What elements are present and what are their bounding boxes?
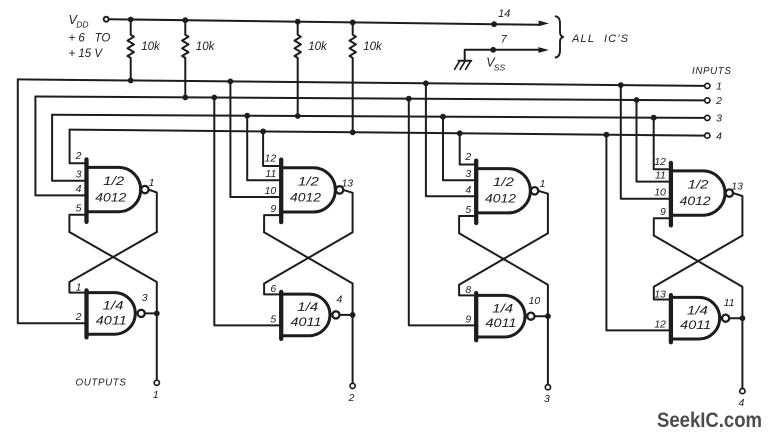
cross-coupling wire U4a 1/2 4012 output to U4b 1/4 4011 input [654,236,743,300]
svg-text:TO: TO [95,33,111,45]
svg-text:12: 12 [654,318,666,330]
wire row 3 down to U4a 1/2 4012 pin 12 [654,118,671,170]
wire row 2 down to U4a 1/2 4012 pin 11 [637,100,671,182]
svg-text:1/4: 1/4 [687,303,708,317]
svg-text:8: 8 [465,284,471,296]
wire row4 corner down to U1a 1/2 4012 pin 2 [70,130,87,164]
output terminal 4 [740,389,745,394]
cross-coupling wire U1a 1/2 4012 output to U1b 1/4 4011 input [69,232,156,293]
svg-text:4012: 4012 [680,194,711,208]
junction dot rail top of resistor x=131 [128,17,134,23]
wire output node 1 down to terminal [156,313,158,380]
svg-text:10k: 10k [141,41,161,53]
input terminal 3 [705,115,710,120]
svg-text:4: 4 [716,130,722,142]
svg-text:1/4: 1/4 [103,299,124,313]
wire row 3 corner down to U1a 1/2 4012 pin 3 [52,115,86,181]
svg-text:1/2: 1/2 [688,178,709,192]
junction dot rail top of resistor x=298 [295,19,301,25]
svg-text:INPUTS: INPUTS [692,66,732,77]
svg-text:SS: SS [494,63,506,73]
svg-text:9: 9 [465,313,471,325]
junction dot output node 1 [154,311,160,317]
cross-coupling wire U2b 1/4 4011 output to U2a 1/2 4012 input [264,232,353,315]
wire input row 4 down to U4b 1/4 4011 pin 12 [606,135,671,331]
junction dot row 1 bottom of resistor x=131 [128,78,134,84]
junction dot row 1 x=230 [228,79,234,85]
svg-text:1: 1 [716,81,722,93]
svg-text:1: 1 [540,178,546,190]
svg-text:1: 1 [76,281,82,293]
junction dot row 3 bottom of resistor x=298 [295,113,301,119]
input bus row 4 [70,130,705,136]
junction dot row 2 x=636 [634,97,640,103]
svg-text:9: 9 [270,203,276,215]
input terminal 2 [705,98,710,103]
svg-text:4011: 4011 [486,316,517,330]
wire U4a 1/2 4012 pin 9 feedback stub [654,218,671,235]
NAND gate U1b 1/4 4011 [87,293,136,335]
wire U4b 1/4 4011 output to node [729,317,742,319]
wire U1b 1/4 4011 output to node [145,312,157,314]
resistor 10k at x=131 [128,20,134,81]
junction dot rail top of resistor x=353 [350,20,356,26]
input bus row 1 [18,79,705,86]
junction dot output node 3 [545,313,551,319]
wire output node 3 down to terminal [547,316,549,384]
svg-text:IC'S: IC'S [604,33,629,45]
svg-text:1/4: 1/4 [492,301,513,315]
svg-text:3: 3 [76,169,82,181]
svg-text:4012: 4012 [485,192,516,206]
svg-text:4011: 4011 [680,318,711,332]
cross-coupling wire U3a 1/2 4012 output to U3b 1/4 4011 input [459,233,548,295]
cross-coupling wire U1b 1/4 4011 output to U1a 1/2 4012 input [69,232,156,313]
svg-text:10: 10 [654,187,666,199]
NAND gate U3b 1/4 4011 [476,295,525,337]
svg-text:9: 9 [660,206,666,218]
cross-coupling wire U3b 1/4 4011 output to U3a 1/2 4012 input [459,233,548,316]
svg-text:1/2: 1/2 [493,175,514,189]
svg-text:11: 11 [724,297,735,309]
wire input row 2 down to U3b 1/4 4011 pin 9 [409,99,476,326]
NAND gate U3a 1/2 4012 [476,169,530,213]
junction dot row 1 x=426 [423,80,429,86]
wire row 3 down to U2a 1/2 4012 pin 11 [247,116,281,181]
svg-text:1: 1 [153,389,159,401]
input bus row 2 [35,97,704,101]
svg-text:+ 6: + 6 [69,33,86,45]
svg-text:2: 2 [715,95,722,107]
NAND gate U1a 1/2 4012 [87,167,141,211]
NAND gate U4a 1/2 4012 [671,171,725,215]
junction dot row 2 bottom of resistor x=185 [182,95,188,101]
pin 14 junction [491,21,497,27]
wire row 1 down to U4a 1/2 4012 pin 10 [621,85,671,199]
svg-text:4012: 4012 [95,190,126,204]
VDD rail wire [109,19,538,25]
resistor 10k at x=185 [182,20,188,97]
cross-coupling wire U4b 1/4 4011 output to U4a 1/2 4012 input [654,236,743,319]
svg-text:10: 10 [265,185,277,197]
input terminal 4 [705,133,710,138]
svg-text:4: 4 [76,183,82,195]
wire U1a 1/2 4012 pin 5 feedback stub [69,215,86,232]
junction dot row 3 x=654 [651,115,657,121]
svg-text:ALL: ALL [571,33,595,45]
junction dot rail top of resistor x=185 [182,17,188,23]
junction dot row 4 x=263 [260,129,266,135]
svg-text:4: 4 [465,184,471,196]
svg-text:SeekIC.com: SeekIC.com [657,408,762,432]
junction dot output node 2 [350,312,356,318]
wire output node 4 down to terminal [741,318,743,388]
svg-text:OUTPUTS: OUTPUTS [76,378,127,389]
svg-text:5: 5 [465,204,471,216]
NAND gate U2a 1/2 4012 [281,168,335,212]
svg-text:7: 7 [501,34,508,46]
junction dot row 3 x=247 [244,113,250,119]
output terminal 3 [545,385,550,390]
svg-text:3: 3 [142,292,148,304]
junction dot row 4 x=606 [604,132,610,138]
wire U2a 1/2 4012 output down [343,190,352,232]
svg-text:DD: DD [76,20,88,30]
junction dot row 2 x=214 [211,95,217,101]
wire U2a 1/2 4012 pin 9 feedback stub [264,215,281,232]
svg-text:3: 3 [465,168,471,180]
svg-text:3: 3 [544,393,550,405]
svg-text:11: 11 [655,169,666,181]
svg-text:+ 15 V: + 15 V [69,48,104,60]
output terminal 1 [154,380,159,385]
VDD supply terminal [104,17,109,22]
svg-text:14: 14 [498,8,510,20]
junction dot output node 4 [740,315,746,321]
wire row 4 down to U2a 1/2 4012 pin 12 [263,131,281,166]
wire U2b 1/4 4011 output to node [340,314,353,316]
svg-text:10k: 10k [308,41,328,53]
wire U1a 1/2 4012 output down [149,190,157,232]
cross-coupling wire U2a 1/2 4012 output to U2b 1/4 4011 input [264,232,353,294]
junction dot row 4 bottom of resistor x=353 [350,129,356,135]
wire U3a 1/2 4012 pin 5 feedback stub [459,216,476,233]
wire row 4 down to U3a 1/2 4012 pin 2 [460,133,477,164]
svg-text:1/2: 1/2 [103,174,124,188]
svg-text:11: 11 [265,168,276,180]
junction dot row 3 x=443 [440,114,446,120]
output terminal 2 [350,383,355,388]
svg-text:13: 13 [341,177,353,189]
wire U3b 1/4 4011 output to node [535,315,548,317]
svg-text:3: 3 [716,113,722,125]
wire row 1 down to U3a 1/2 4012 pin 4 [426,83,476,196]
input terminal 1 [705,83,710,88]
svg-text:12: 12 [654,156,666,168]
svg-text:12: 12 [265,153,277,165]
pin 7 wire from VSS ground [465,50,538,61]
svg-text:1: 1 [149,177,155,189]
svg-text:10: 10 [529,295,541,307]
ground symbol [459,60,472,62]
svg-text:2: 2 [75,311,82,323]
resistor 10k at x=298 [295,22,301,116]
arrow to pin 7 [538,47,548,53]
wire U4a 1/2 4012 output down [733,193,742,235]
NAND gate U2b 1/4 4011 [281,294,330,336]
svg-text:5: 5 [76,203,82,215]
pin 7 junction [490,47,496,53]
wire row 1 down to U2a 1/2 4012 pin 10 [230,81,281,197]
wire input row 2 down to U2b 1/4 4011 pin 5 [214,98,281,326]
svg-text:4012: 4012 [290,191,321,205]
svg-text:1/2: 1/2 [298,174,319,188]
arrow to pin 14 [539,21,550,27]
svg-text:10k: 10k [196,41,216,53]
svg-text:1/4: 1/4 [297,300,318,314]
wire row 3 down to U3a 1/2 4012 pin 3 [443,117,476,181]
NAND gate U4b 1/4 4011 [671,297,720,339]
svg-text:5: 5 [270,313,276,325]
input bus row 3 [52,115,705,118]
curly brace ALL IC'S [555,16,564,57]
svg-text:10k: 10k [363,41,383,53]
wire input row 1 corner down to U1b 1/4 4011 pin 2 [18,79,87,323]
svg-text:4011: 4011 [96,313,127,327]
svg-text:2: 2 [348,392,355,404]
wire row 2 corner down to U1a 1/2 4012 pin 4 [35,97,86,196]
svg-text:13: 13 [731,181,743,193]
wire output node 2 down to terminal [352,315,354,383]
junction dot row 4 x=460 [457,130,463,136]
svg-text:6: 6 [270,283,276,295]
svg-text:4011: 4011 [291,315,322,329]
svg-text:2: 2 [464,151,471,163]
wire U3a 1/2 4012 output down [538,191,548,233]
svg-text:13: 13 [654,288,666,300]
junction dot row 1 x=621 [618,82,624,88]
svg-text:4: 4 [336,294,342,306]
svg-text:2: 2 [75,150,82,162]
junction dot row 2 x=409 [406,96,412,102]
resistor 10k at x=353 [350,22,356,132]
